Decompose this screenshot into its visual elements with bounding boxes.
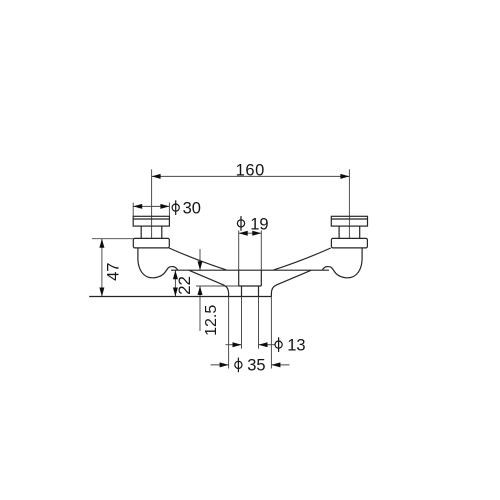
dim phi35: right arrow shaft bbox=[271, 364, 289, 366]
arrowhead phi19 right bbox=[252, 231, 261, 236]
body: platform top line bbox=[171, 269, 329, 271]
phi13 hole left line bbox=[241, 286, 243, 297]
svg-text:22: 22 bbox=[175, 276, 194, 295]
svg-text:12.5: 12.5 bbox=[203, 305, 220, 336]
dim phi35: right extension below base bbox=[270, 297, 272, 369]
dim phi13: right extension below base bbox=[258, 297, 260, 349]
body: left underside bulge bbox=[138, 248, 178, 278]
dim 160: dimension line bbox=[152, 175, 350, 177]
thin dimension / extension / axis lines bbox=[92, 169, 350, 368]
arrowhead 47 bottom bbox=[99, 288, 104, 297]
dim phi13: right arrow shaft bbox=[259, 344, 275, 346]
svg-text:47: 47 bbox=[105, 263, 123, 281]
left cylinder: stem right edge bbox=[161, 226, 163, 238]
right cylinder: stem right edge bbox=[359, 226, 361, 238]
dim phi19: dimension line bbox=[239, 232, 262, 234]
dim 12.5: lower leader shaft bbox=[199, 286, 201, 331]
body: left wing top edge bbox=[169, 248, 226, 270]
phi19 column bottom line bbox=[239, 285, 262, 287]
dim phi13: left extension below base bbox=[241, 297, 243, 349]
label phi19: phi symbol bbox=[237, 216, 244, 231]
phi19 column left side bbox=[238, 270, 240, 286]
dim 47: top extension line bbox=[92, 238, 133, 240]
arrowhead 22 bottom bbox=[173, 288, 178, 297]
body: right lower diagonal into block bbox=[271, 270, 311, 296]
arrowhead 12.5 up bbox=[198, 286, 203, 295]
body: right underside bulge bbox=[322, 248, 362, 278]
svg-text:160: 160 bbox=[236, 161, 265, 179]
right cylinder: cap rectangle bbox=[331, 216, 367, 226]
arrowhead phi30 left bbox=[133, 204, 142, 209]
label phi13: phi symbol bbox=[275, 337, 282, 352]
dim phi13: left arrow shaft bbox=[226, 344, 242, 346]
dim 12.5: lower reference extension line bbox=[196, 285, 239, 287]
dim phi19: right extension above body bbox=[260, 230, 262, 270]
right cylinder: cap inner line bbox=[331, 218, 367, 220]
arrowhead phi35 left (points right) bbox=[220, 362, 229, 367]
body: right wing top edge bbox=[274, 248, 331, 270]
label phi30: phi symbol bbox=[172, 200, 179, 215]
label phi35: phi symbol bbox=[235, 358, 242, 373]
dim phi30: right extension bbox=[168, 203, 170, 217]
arrowhead phi19 left bbox=[239, 231, 248, 236]
dim 47: dimension line bbox=[101, 239, 103, 297]
svg-text:13: 13 bbox=[287, 336, 305, 354]
svg-text:30: 30 bbox=[183, 199, 201, 217]
phi13 hole right line bbox=[258, 286, 260, 297]
left cylinder: cap inner line bbox=[133, 218, 169, 220]
body outlines (thicker, darker) bbox=[89, 216, 367, 296]
arrowhead 47 top bbox=[99, 239, 104, 248]
right cylinder: flange rectangle bbox=[331, 238, 367, 248]
arrowhead phi13 left (points right) bbox=[233, 342, 242, 347]
arrowhead phi30 right bbox=[160, 204, 169, 209]
right cylinder: stem left edge bbox=[338, 226, 340, 238]
dim 160: right extension + axis line of right cylinder bbox=[348, 169, 350, 238]
svg-text:19: 19 bbox=[250, 216, 268, 234]
left cylinder: stem left edge bbox=[140, 226, 142, 238]
bottom mounting face long line bbox=[89, 296, 271, 298]
arrowhead phi13 right (points left) bbox=[259, 342, 268, 347]
svg-text:35: 35 bbox=[247, 357, 265, 375]
arrowhead phi35 right (points left) bbox=[271, 362, 280, 367]
dim 12.5: upper leader shaft bbox=[199, 249, 201, 270]
left cylinder: cap rectangle bbox=[133, 216, 169, 226]
arrowhead 12.5 down bbox=[198, 261, 203, 270]
dim phi35: left arrow shaft bbox=[211, 364, 229, 366]
left cylinder: flange rectangle bbox=[133, 238, 169, 248]
dim phi19: left extension above body bbox=[238, 230, 240, 270]
arrowhead 160 left bbox=[152, 174, 161, 179]
body: left lower diagonal into block bbox=[189, 270, 229, 296]
dim phi30: left extension bbox=[132, 203, 134, 217]
arrowhead 22 top bbox=[173, 270, 178, 279]
arrowhead 160 right bbox=[340, 174, 349, 179]
dim 22: dimension line bbox=[174, 270, 176, 296]
phi19 column right side bbox=[260, 270, 262, 286]
dim 160: left extension + axis line of left cylinder bbox=[151, 169, 153, 238]
dim phi35: left extension below base bbox=[228, 297, 230, 369]
dim phi30: dimension line bbox=[133, 205, 169, 207]
